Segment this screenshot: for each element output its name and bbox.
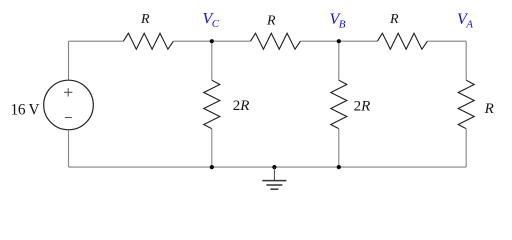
bottom junction dot under VB — [337, 165, 341, 169]
ground — [262, 167, 286, 189]
wire stub node VC down to R4 — [211, 41, 213, 80]
wire top-right segment — [427, 40, 466, 42]
resistor R3 (top right, value R) — [377, 33, 427, 49]
wire stub node VB down to R5 — [338, 41, 340, 80]
svg-text:VA: VA — [457, 11, 473, 31]
resistor R2 (top middle, value R) — [251, 33, 301, 49]
resistor R4 (vertical under VC, value 2R) — [204, 80, 220, 129]
resistor R1 (top left, value R) — [123, 33, 173, 49]
svg-text:R: R — [484, 101, 494, 117]
wire below R4 — [211, 129, 213, 167]
wire bottom rail — [69, 166, 467, 168]
wire top-left segment — [69, 40, 124, 42]
wire between R1 and node VC — [173, 40, 250, 42]
node VC junction dot — [210, 39, 214, 43]
resistor R5 (vertical under VB, value 2R) — [331, 80, 347, 129]
wire left riser above source — [68, 41, 70, 80]
svg-text:VC: VC — [203, 11, 220, 31]
wire below R6 — [465, 129, 467, 167]
svg-text:R: R — [389, 12, 399, 27]
svg-text:16 V: 16 V — [11, 101, 40, 118]
resistor R6 (vertical right, value R) — [458, 80, 474, 129]
node VB junction dot — [337, 39, 341, 43]
wire below source — [68, 130, 70, 167]
wire between node VB and R3 — [301, 40, 378, 42]
svg-text:R: R — [140, 12, 150, 27]
voltage source VS1 (16 V) — [44, 80, 94, 130]
svg-text:2R: 2R — [354, 98, 371, 114]
bottom junction dot at ground — [272, 165, 276, 169]
wire below R5 — [338, 129, 340, 167]
svg-text:R: R — [266, 14, 276, 29]
wire right riser above R6 — [465, 41, 467, 80]
bottom junction dot under VC — [210, 165, 214, 169]
svg-text:VB: VB — [330, 11, 346, 31]
svg-text:2R: 2R — [233, 98, 250, 114]
